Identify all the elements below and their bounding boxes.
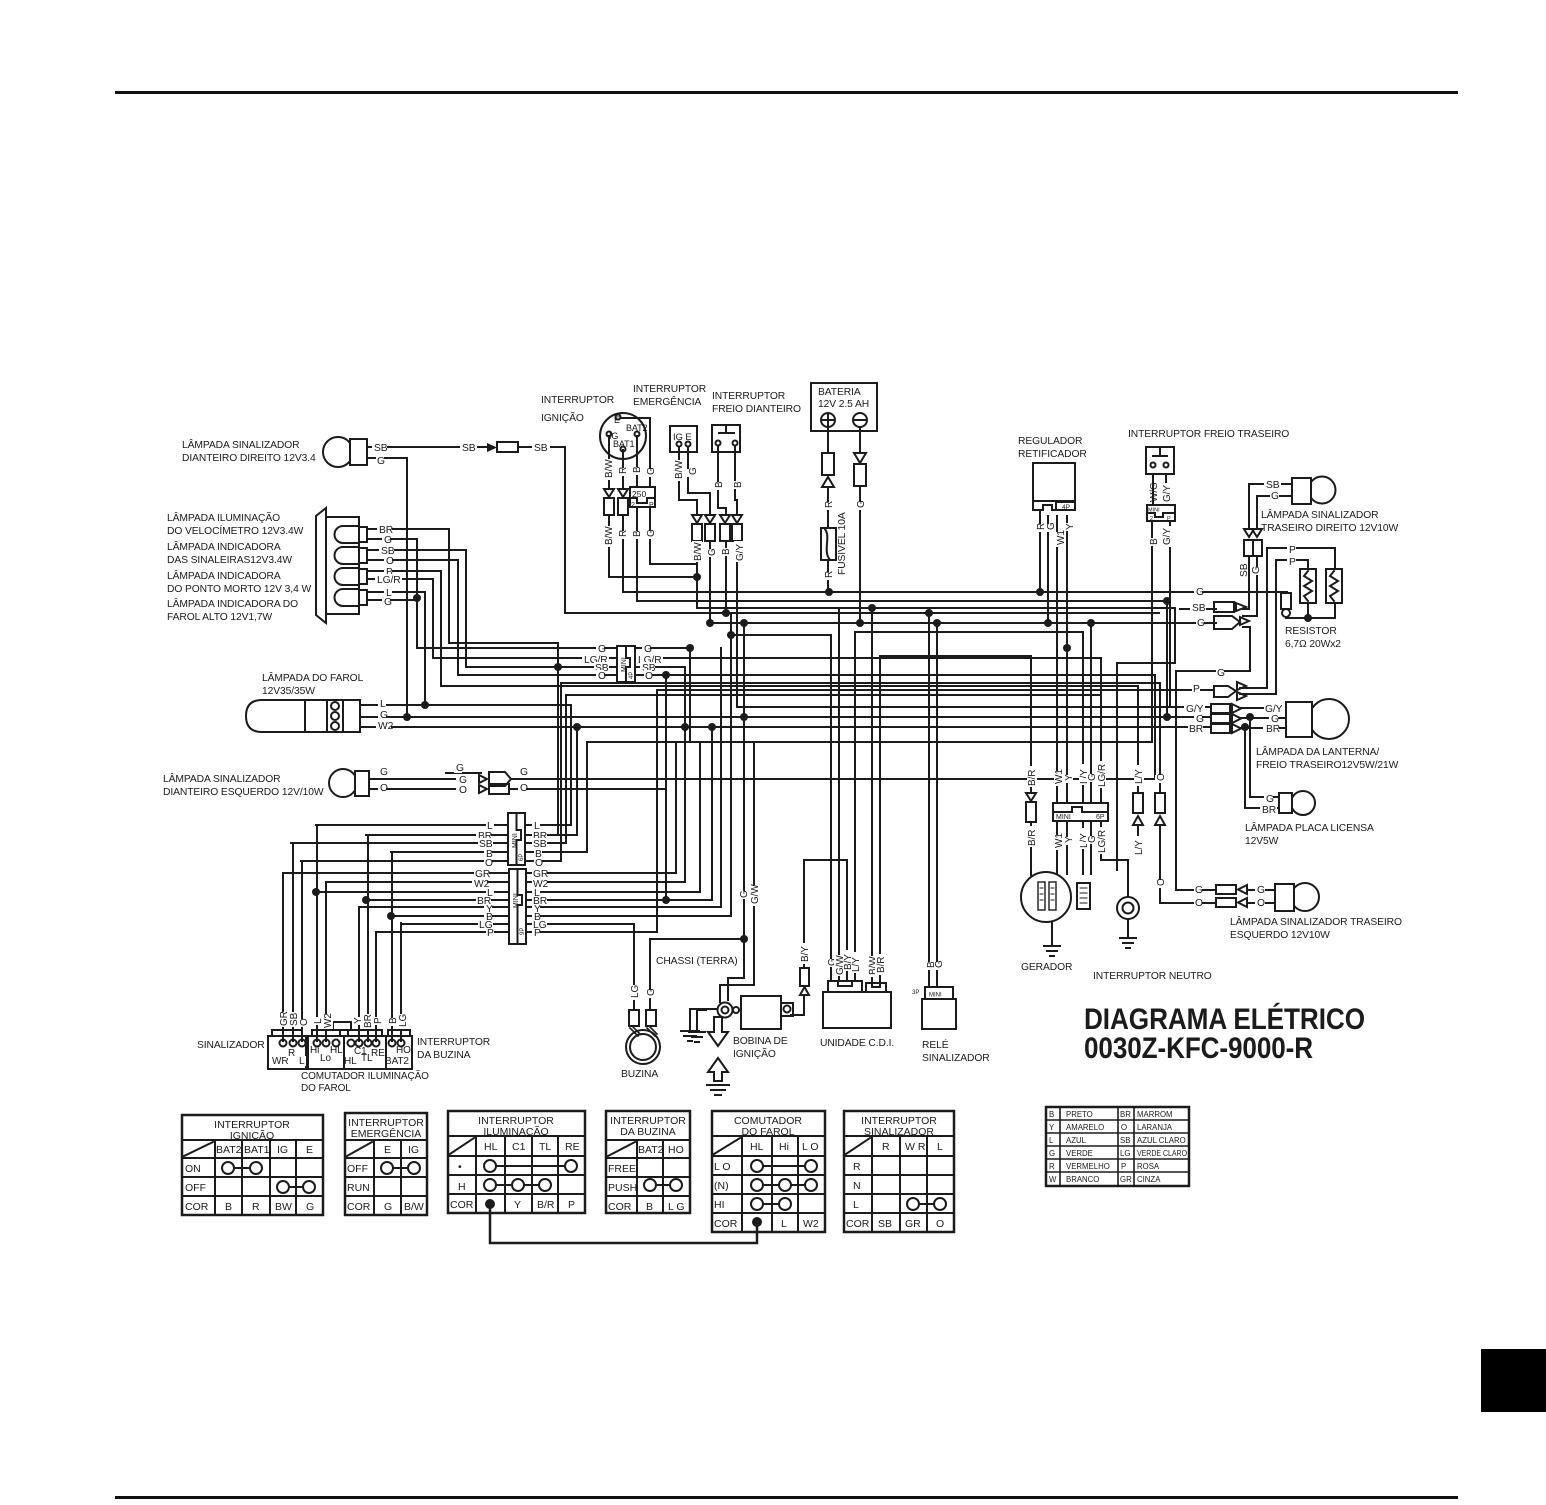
svg-text:LÂMPADA DA LANTERNA/: LÂMPADA DA LANTERNA/ — [1256, 745, 1379, 758]
vertical wire labels below ignition switch — [603, 459, 657, 547]
svg-text:RESISTOR: RESISTOR — [1285, 626, 1337, 637]
connector on B/R wire — [1026, 793, 1036, 822]
bus row 635 G cdi feed — [731, 634, 831, 636]
svg-text:WR: WR — [272, 1056, 288, 1067]
rear left signal feed rows labels G O — [1204, 890, 1216, 903]
svg-text:P: P — [1289, 545, 1296, 556]
svg-text:BAT1: BAT1 — [613, 439, 635, 449]
top page rule — [115, 91, 1458, 94]
labels generator harness — [1027, 761, 1167, 888]
vertical labels battery wires — [824, 500, 867, 580]
svg-text:MINI: MINI — [513, 893, 520, 908]
bus row 608 B/W — [697, 607, 1175, 609]
svg-text:SINALIZADOR: SINALIZADOR — [922, 1053, 990, 1064]
svg-text:P: P — [1121, 1162, 1126, 1171]
svg-text:(N): (N) — [714, 1180, 729, 1192]
svg-text:E: E — [384, 1144, 391, 1156]
svg-text:G: G — [380, 710, 388, 721]
vertical x929 B relay — [928, 613, 930, 987]
svg-text:L: L — [781, 1218, 787, 1230]
battery R wire connector + fuse — [821, 453, 836, 560]
svg-text:Hi: Hi — [779, 1141, 789, 1153]
MINI 9P harness connector (vertical, lower) — [509, 869, 526, 944]
svg-text:GERADOR: GERADOR — [1021, 962, 1072, 973]
svg-text:P: P — [568, 1199, 575, 1211]
svg-text:O: O — [645, 671, 653, 682]
svg-text:BR: BR — [1262, 805, 1276, 816]
vertical x754 G/W coil — [720, 742, 754, 1002]
bus row 683 O harness — [561, 682, 1160, 684]
wire: cluster O — [367, 560, 458, 675]
O flasher wire — [1159, 683, 1161, 903]
svg-text:BW: BW — [275, 1201, 292, 1213]
switch column BR — [367, 835, 369, 1041]
svg-text:R: R — [882, 1141, 890, 1153]
iluminacao row1 contacts — [484, 1160, 496, 1172]
generator L/Y — [1082, 632, 1084, 874]
svg-text:G/W: G/W — [750, 884, 761, 904]
svg-text:LÂMPADA INDICADORA: LÂMPADA INDICADORA — [167, 540, 281, 553]
bus row 656 B/R — [880, 655, 1031, 657]
bus row 707 G/Y — [737, 706, 1211, 708]
switch column L — [316, 825, 318, 1041]
svg-text:INTERRUPTOR: INTERRUPTOR — [541, 395, 614, 406]
bus row 592 R — [623, 592, 1287, 593]
svg-text:B: B — [225, 1201, 232, 1213]
svg-text:MINI: MINI — [929, 993, 942, 999]
svg-text:O: O — [1156, 878, 1167, 886]
wire: cluster B — [367, 571, 441, 686]
left switch connector: comutador farol — [308, 1022, 351, 1069]
table: interruptor sinalizador — [844, 1111, 954, 1232]
vertical x744 G coil — [728, 623, 744, 1000]
horn (buzina) — [626, 1010, 660, 1064]
svg-text:HL: HL — [750, 1141, 764, 1153]
svg-text:MINI: MINI — [1056, 814, 1071, 821]
license lamp BR — [1245, 727, 1279, 808]
wire: left signal O row — [369, 788, 666, 790]
wire labels: left signal — [378, 763, 528, 796]
lamp: tail/brake bulb 12V5W/21W — [1286, 699, 1349, 739]
svg-text:G: G — [384, 597, 392, 608]
svg-text:G: G — [644, 644, 652, 655]
svg-text:BAT2: BAT2 — [626, 423, 648, 433]
bus row 601 B — [637, 600, 1167, 602]
svg-text:P: P — [534, 928, 541, 939]
wire: cluster SB — [367, 550, 466, 667]
switch column SB — [292, 843, 294, 1041]
svg-text:G: G — [856, 500, 867, 508]
svg-text:LARANJA: LARANJA — [1137, 1123, 1173, 1132]
svg-text:RETIFICADOR: RETIFICADOR — [1018, 449, 1087, 460]
svg-text:LÂMPADA SINALIZADOR: LÂMPADA SINALIZADOR — [1261, 508, 1379, 521]
cluster bulb 1 (velocimetro) — [335, 526, 368, 543]
wire: battery R to fuse — [827, 427, 829, 592]
wire: ignition R — [622, 450, 624, 592]
svg-text:2: 2 — [1150, 516, 1153, 522]
MINI 6P harness connector (vertical, upper) — [508, 813, 525, 865]
svg-text:Y: Y — [1065, 523, 1076, 530]
vertical labels regulator wires — [1036, 522, 1076, 547]
wire: emergency B/W — [679, 447, 697, 577]
wire name labels: right front signal — [372, 442, 548, 467]
wire: cluster G1 — [367, 539, 417, 598]
wire: headlight W2 / BR tail row — [360, 726, 1211, 728]
svg-text:P: P — [1167, 516, 1171, 522]
wire: cluster L — [367, 592, 425, 705]
vertical x847 B/Y cdi — [846, 860, 848, 981]
svg-text:R: R — [853, 1161, 861, 1173]
svg-text:VERDE: VERDE — [1066, 1149, 1093, 1158]
bus row 613 B — [565, 612, 1159, 614]
switch column LG — [400, 923, 402, 1041]
bus row 903 O rear left — [1160, 902, 1216, 904]
farol COR dot — [753, 1218, 761, 1226]
svg-text:2: 2 — [631, 502, 635, 509]
connector on L/Y wire — [1133, 793, 1143, 825]
svg-text:L/Y: L/Y — [1134, 769, 1145, 784]
switch column W2 — [325, 882, 327, 1041]
svg-text:B/R: B/R — [1027, 830, 1038, 846]
svg-text:MARROM: MARROM — [1137, 1110, 1173, 1119]
wire: ignition B — [636, 436, 638, 601]
svg-text:W R: W R — [905, 1141, 926, 1153]
battery box — [811, 383, 877, 431]
G rear right lower spur to row 671 — [1243, 627, 1250, 671]
svg-text:L: L — [299, 1056, 305, 1067]
svg-text:G: G — [646, 529, 657, 537]
svg-text:E: E — [614, 415, 620, 425]
svg-text:VERMELHO: VERMELHO — [1066, 1162, 1110, 1171]
svg-text:CHASSI (TERRA): CHASSI (TERRA) — [656, 956, 738, 967]
svg-text:LÂMPADA PLACA LICENSA: LÂMPADA PLACA LICENSA — [1245, 821, 1374, 834]
vertical x731 B — [730, 613, 732, 916]
vertical x839 G/W cdi — [838, 608, 840, 981]
svg-text:DO FAROL: DO FAROL — [301, 1083, 351, 1094]
labels MINI 9P rows — [472, 868, 549, 939]
vertical x721 Y — [720, 648, 722, 907]
svg-text:VERDE CLARO: VERDE CLARO — [1137, 1149, 1187, 1158]
generator LG/R — [1100, 658, 1102, 860]
svg-text:O: O — [485, 858, 493, 869]
wire: G front right signal — [367, 458, 407, 717]
svg-text:REGULADOR: REGULADOR — [1018, 436, 1082, 447]
svg-text:L: L — [937, 1141, 943, 1153]
svg-text:G: G — [520, 767, 528, 778]
vertical x855 L/Y cdi — [854, 632, 856, 981]
color legend text — [1049, 1110, 1187, 1184]
ignicao ON contacts — [222, 1162, 234, 1174]
link wire between iluminacao and farol tables — [490, 1208, 757, 1243]
bus row 623 G main — [710, 622, 1216, 624]
svg-text:FREIO DIANTEIRO: FREIO DIANTEIRO — [712, 404, 801, 415]
speedometer cluster back plate — [326, 517, 359, 614]
vertical x561 O link — [560, 683, 562, 861]
svg-text:G: G — [384, 535, 392, 546]
resistor pair 6.7ohm — [1300, 569, 1342, 603]
table: interruptor ignicao — [182, 1115, 323, 1215]
bottom page rule — [115, 1496, 1458, 1499]
G rear right feed row 622 spur — [1243, 556, 1257, 616]
svg-text:6P: 6P — [519, 854, 525, 861]
svg-text:G: G — [1217, 668, 1225, 679]
svg-text:250: 250 — [632, 489, 646, 499]
switch column P — [375, 932, 377, 1041]
vertical x666 O — [665, 675, 667, 900]
bus row 663 link — [1117, 662, 1175, 664]
wire: battery G — [859, 427, 861, 623]
svg-text:G: G — [377, 456, 385, 467]
svg-text:SB: SB — [1192, 603, 1206, 614]
svg-text:IG: IG — [277, 1144, 288, 1156]
MINI9P rows left — [283, 873, 509, 932]
svg-text:MINI: MINI — [512, 833, 519, 848]
label B/Y coil — [800, 943, 810, 964]
labels horn wires — [630, 985, 657, 1000]
svg-text:3P: 3P — [912, 990, 919, 996]
label G bus right — [1194, 586, 1202, 596]
vertical x831 G cdi — [830, 635, 832, 981]
wire: ignition G (from E terminal) — [621, 418, 697, 564]
bus row 643 BR link — [449, 642, 558, 644]
rear brake switch wires — [1153, 474, 1166, 505]
MINI6P rows right — [525, 825, 587, 861]
svg-text:EMERGÊNCIA: EMERGÊNCIA — [351, 1127, 422, 1140]
battery G wire connector — [854, 453, 866, 486]
svg-text:Y: Y — [514, 1199, 521, 1211]
tail lamp harness stubs — [1241, 707, 1286, 709]
svg-text:O: O — [380, 783, 388, 794]
svg-text:FREE: FREE — [608, 1163, 636, 1175]
250 type connector block — [630, 487, 655, 509]
svg-text:G: G — [1046, 522, 1057, 530]
svg-text:O: O — [535, 858, 543, 869]
relay (rele sinalizador) box — [912, 987, 956, 1029]
inline connector on SB wire (diode+bullet) — [487, 442, 518, 452]
switch column B — [391, 852, 393, 1041]
svg-text:DIANTEIRO ESQUERDO 12V/10W: DIANTEIRO ESQUERDO 12V/10W — [163, 787, 324, 798]
svg-text:BATERIA: BATERIA — [818, 387, 861, 398]
svg-text:COR: COR — [846, 1218, 870, 1230]
svg-text:BOBINA DE: BOBINA DE — [733, 1036, 788, 1047]
svg-text:0030Z-KFC-9000-R: 0030Z-KFC-9000-R — [1084, 1032, 1313, 1065]
bus row 648 G to cdi — [417, 647, 690, 649]
svg-text:SB: SB — [374, 443, 388, 454]
label G and P tail — [1216, 668, 1224, 678]
svg-text:BRANCO: BRANCO — [1066, 1175, 1099, 1184]
svg-text:O: O — [520, 783, 528, 794]
svg-text:W2: W2 — [803, 1218, 819, 1230]
svg-text:Hi: Hi — [310, 1045, 319, 1056]
wire: headlight L row — [360, 704, 571, 706]
svg-text:L/Y: L/Y — [851, 957, 862, 972]
svg-text:L: L — [380, 699, 386, 710]
ground: coil left — [681, 1009, 717, 1041]
bus row 860 B/Y — [804, 859, 847, 861]
svg-text:G: G — [707, 548, 718, 556]
wire: emergency G — [688, 447, 710, 623]
svg-text:BR: BR — [1266, 724, 1280, 735]
svg-text:CINZA: CINZA — [1137, 1175, 1161, 1184]
svg-text:R: R — [824, 571, 835, 578]
neutral switch ground lead — [1127, 919, 1129, 938]
svg-text:LÂMPADA SINALIZADOR: LÂMPADA SINALIZADOR — [163, 772, 281, 785]
svg-text:HO: HO — [396, 1045, 411, 1056]
wire: left signal G upper stub — [446, 772, 481, 774]
iluminacao rowH contacts — [484, 1179, 496, 1191]
svg-text:DO FAROL: DO FAROL — [741, 1126, 794, 1138]
svg-text:12V 2.5 AH: 12V 2.5 AH — [818, 399, 869, 410]
svg-text:G/Y: G/Y — [735, 544, 746, 561]
ground: chassis right — [689, 1010, 706, 1042]
labels rear right signal — [1238, 480, 1280, 578]
svg-text:MINI: MINI — [1148, 508, 1160, 514]
connector spade G (tail harness) — [1214, 682, 1246, 700]
svg-text:DO PONTO MORTO 12V 3,4 W: DO PONTO MORTO 12V 3,4 W — [167, 584, 311, 595]
vertical x634 LG to horn — [633, 924, 635, 1010]
vertical x657 P — [656, 690, 658, 932]
svg-text:EMERGÊNCIA: EMERGÊNCIA — [633, 395, 701, 408]
svg-text:INTERRUPTOR: INTERRUPTOR — [633, 384, 706, 395]
rear right signal bulb stubs — [1249, 484, 1291, 529]
vertical x571 L link — [570, 705, 572, 825]
rear brake switch box — [1146, 447, 1174, 474]
svg-text:B/W: B/W — [604, 459, 615, 478]
bus row 695 SB link — [566, 694, 1100, 696]
connector pair on left signal wires — [479, 772, 511, 794]
svg-text:B: B — [1049, 1110, 1054, 1119]
svg-text:LG/R: LG/R — [1097, 764, 1108, 787]
svg-text:G: G — [456, 763, 464, 774]
svg-text:4P: 4P — [629, 672, 635, 679]
svg-text:SB: SB — [878, 1218, 892, 1230]
lamp: license plate bulb — [1279, 791, 1315, 815]
svg-text:G: G — [1257, 885, 1265, 896]
svg-text:G: G — [384, 1201, 392, 1213]
wire: left signal G row — [369, 778, 1155, 780]
svg-text:GR: GR — [905, 1218, 921, 1230]
buzina PUSH contacts — [644, 1179, 656, 1191]
connector symbols below ignition switch (R wire) — [618, 489, 628, 515]
svg-text:W/G: W/G — [1149, 482, 1160, 502]
svg-text:FREIO TRASEIRO12V5W/21W: FREIO TRASEIRO12V5W/21W — [1256, 760, 1399, 771]
svg-text:FAROL ALTO 12V1,7W: FAROL ALTO 12V1,7W — [167, 612, 272, 623]
svg-text:IG E: IG E — [673, 432, 692, 443]
svg-text:Y: Y — [1049, 1123, 1055, 1132]
bus row 939 G horn — [650, 938, 744, 940]
svg-text:G: G — [598, 644, 606, 655]
vertical x937 G relay — [936, 623, 938, 987]
svg-text:P: P — [487, 928, 494, 939]
svg-text:HL: HL — [330, 1045, 343, 1056]
bus row 671 G branch — [1176, 670, 1250, 672]
table text — [185, 1115, 944, 1230]
connector on O wire — [1155, 793, 1165, 825]
generator B/R — [1030, 656, 1032, 875]
svg-text:BAT1: BAT1 — [244, 1144, 270, 1156]
farol LO contacts — [751, 1160, 763, 1172]
svg-text:OFF: OFF — [347, 1163, 368, 1175]
svg-text:HL: HL — [484, 1141, 498, 1153]
labels license lamp — [1264, 794, 1272, 804]
switch column GR — [282, 873, 284, 1041]
svg-text:SINALIZADOR: SINALIZADOR — [197, 1040, 265, 1051]
ignition switch circle — [600, 413, 646, 459]
svg-text:O: O — [936, 1218, 944, 1230]
vertical x1117 — [1116, 663, 1118, 870]
svg-text:DIANTEIRO DIREITO 12V3.4: DIANTEIRO DIREITO 12V3.4 — [182, 453, 316, 464]
svg-text:BAT2: BAT2 — [385, 1056, 409, 1067]
svg-text:H: H — [458, 1181, 466, 1193]
svg-text:LÂMPADA INDICADORA DO: LÂMPADA INDICADORA DO — [167, 597, 298, 610]
lamp: rear right turn signal — [1292, 477, 1336, 505]
generator ground lead — [1051, 922, 1053, 946]
bus row 658 LG/R — [433, 657, 1101, 659]
svg-text:O: O — [459, 785, 467, 796]
table contact symbols — [222, 1160, 946, 1243]
svg-text:G: G — [934, 960, 945, 968]
bullet connectors rear right signal (SB,G) — [1244, 529, 1262, 556]
svg-text:4P: 4P — [1062, 504, 1070, 511]
svg-text:G: G — [306, 1201, 314, 1213]
left switch connector: buzina — [386, 1030, 412, 1069]
junction dots — [312, 573, 1312, 943]
svg-text:LG: LG — [630, 985, 641, 998]
svg-text:6P: 6P — [1096, 814, 1105, 821]
svg-text:ESQUERDO 12V10W: ESQUERDO 12V10W — [1230, 930, 1330, 941]
svg-text:DA BUZINA: DA BUZINA — [417, 1050, 471, 1061]
svg-text:IG: IG — [408, 1144, 419, 1156]
rear left signal stubs — [1247, 889, 1275, 891]
svg-text:G: G — [1196, 587, 1204, 598]
wire: cluster BR — [367, 529, 558, 835]
svg-text:L O: L O — [714, 1161, 731, 1173]
svg-text:INTERRUPTOR NEUTRO: INTERRUPTOR NEUTRO — [1093, 971, 1212, 982]
svg-text:SB: SB — [534, 443, 548, 454]
L/Y flasher wire — [1137, 686, 1139, 855]
svg-text:W: W — [1049, 1175, 1057, 1184]
table: interruptor iluminacao — [448, 1111, 585, 1213]
svg-text:COR: COR — [347, 1201, 371, 1213]
regulator wires R G W1 Y — [1039, 512, 1041, 592]
vertical labels rear brake switch wires — [1148, 482, 1173, 547]
wire: front brake B left — [718, 446, 726, 613]
table: interruptor emergencia — [345, 1113, 427, 1215]
svg-text:UNIDADE C.D.I.: UNIDADE C.D.I. — [820, 1038, 894, 1049]
svg-text:AMARELO: AMARELO — [1066, 1123, 1104, 1132]
svg-text:B/R: B/R — [1027, 770, 1038, 786]
bus row 632 L/Y — [855, 631, 1083, 633]
svg-text:SB: SB — [1120, 1136, 1130, 1145]
lamp: right front turn signal bulb — [323, 437, 367, 467]
svg-text:B: B — [632, 466, 643, 473]
svg-text:RE: RE — [565, 1141, 580, 1153]
vertical x1155 — [1154, 675, 1156, 779]
wire: cluster LG/R — [367, 579, 433, 658]
left switch connector: iluminacao — [344, 1030, 386, 1069]
svg-text:G: G — [1197, 618, 1205, 629]
svg-text:E: E — [306, 1144, 313, 1156]
svg-text:B/R: B/R — [537, 1199, 555, 1211]
svg-text:B: B — [714, 481, 725, 488]
wire labels: headlight — [376, 698, 394, 732]
emergencia OFF contacts — [381, 1162, 393, 1174]
svg-text:G: G — [1266, 794, 1274, 805]
svg-text:IGNIÇÃO: IGNIÇÃO — [230, 1129, 274, 1142]
svg-text:RELÉ: RELÉ — [922, 1038, 949, 1051]
svg-text:Y: Y — [1064, 774, 1075, 781]
farol HI contacts — [751, 1198, 763, 1210]
